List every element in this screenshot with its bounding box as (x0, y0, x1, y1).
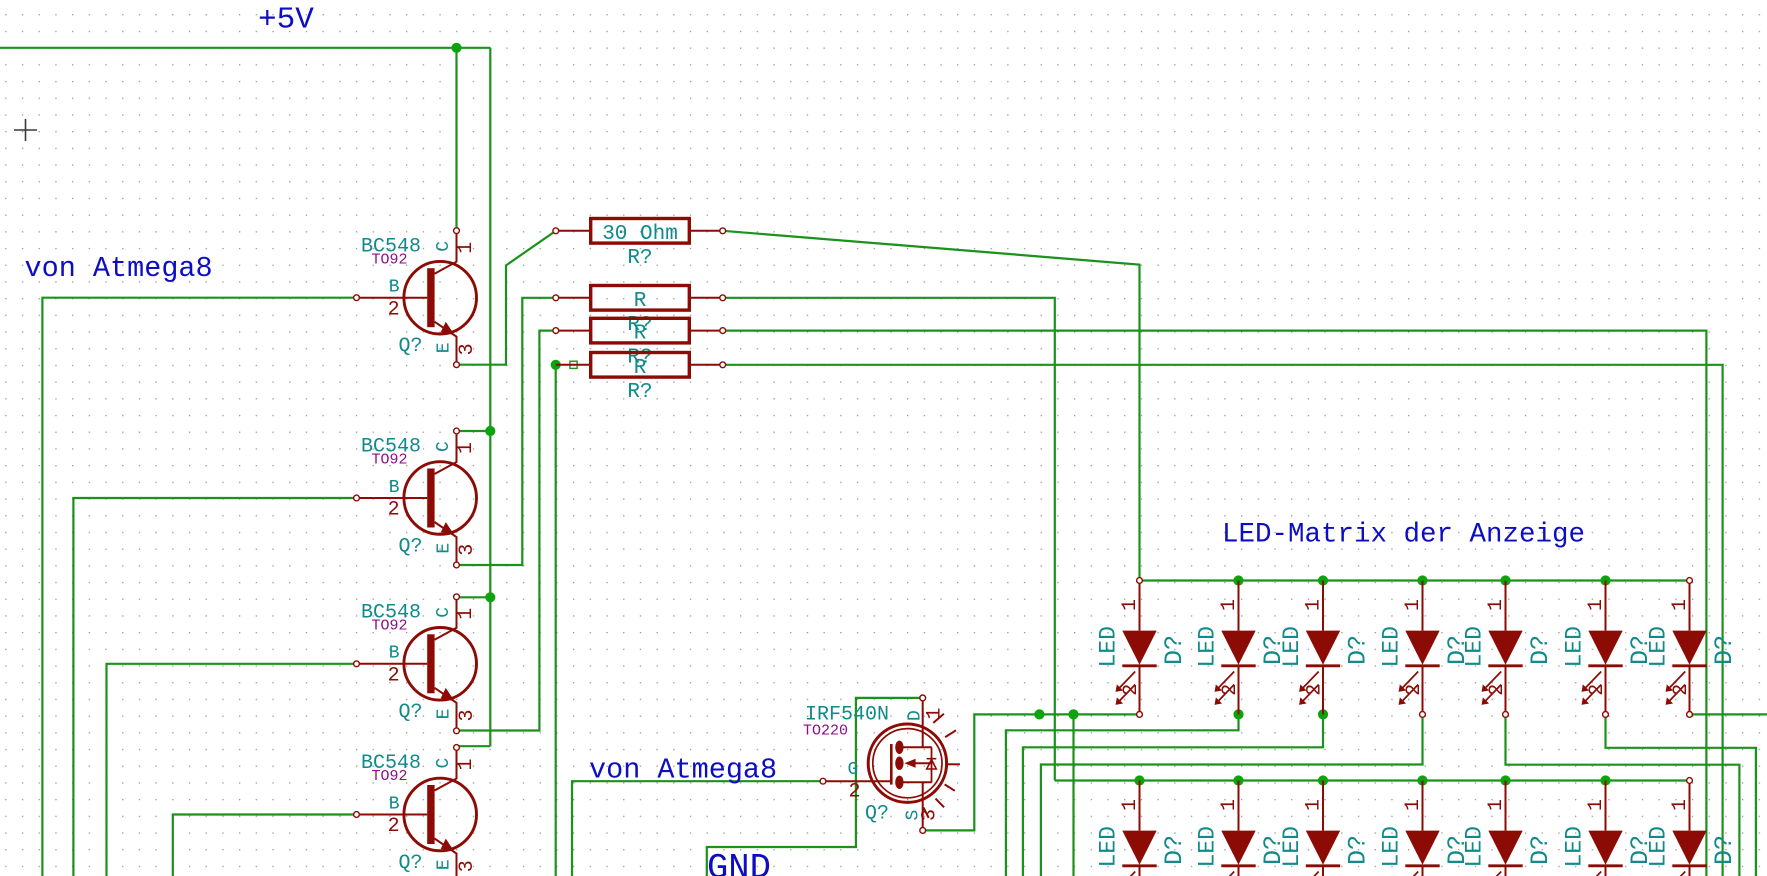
transistor Q? IRF540N MOSFET (803, 695, 960, 833)
junction (1417, 575, 1427, 585)
pin 3 emitter (435, 688, 457, 731)
junction (1318, 709, 1328, 719)
pin 2 base (357, 297, 427, 299)
svg-text:1: 1 (1402, 599, 1425, 611)
svg-text:2: 2 (1586, 684, 1609, 696)
wire R1 to LED row1 anode bus (723, 231, 1140, 581)
light arrows (1400, 672, 1419, 704)
svg-text:+5V: +5V (258, 3, 314, 38)
svg-text:3: 3 (456, 343, 479, 355)
pin 2 base (357, 814, 427, 816)
pin 3 source (903, 781, 932, 783)
junction (451, 43, 461, 53)
svg-text:D?: D? (1526, 835, 1555, 865)
wire R4 to right edge (723, 365, 1723, 876)
svg-text:3: 3 (456, 709, 479, 721)
svg-text:R: R (634, 290, 647, 313)
svg-text:LED: LED (1195, 826, 1221, 867)
svg-text:Q?: Q? (865, 803, 889, 826)
light arrows (1300, 872, 1319, 876)
svg-text:TO220: TO220 (803, 723, 848, 740)
LED D? #1.3 (1279, 581, 1373, 715)
wire LED D4 cathode down (1041, 714, 1423, 876)
gate bar (890, 744, 893, 785)
resistor R? #2 value R (553, 286, 726, 337)
svg-text:D?: D? (1710, 835, 1739, 865)
svg-text:1: 1 (1669, 599, 1692, 611)
svg-text:C: C (434, 758, 454, 769)
wire Q1 collector to +5V (455, 48, 457, 231)
svg-text:LED: LED (1096, 626, 1122, 667)
wire Q2 emitter to R2 (457, 298, 556, 565)
svg-text:1: 1 (1585, 599, 1608, 611)
LED D? #2.2 (1195, 781, 1289, 876)
wire Q4 collector stub (457, 745, 491, 747)
svg-text:1: 1 (1119, 799, 1142, 811)
svg-text:2: 2 (388, 499, 400, 522)
LED D? #2.1 (1096, 781, 1190, 876)
svg-text:1: 1 (1218, 599, 1241, 611)
svg-text:1: 1 (455, 242, 478, 254)
wire LED D7 cathode to edge (1690, 713, 1767, 715)
junction (485, 426, 495, 436)
LED pin end circles (1137, 578, 1143, 584)
transistor Q? BC548 #3 (354, 594, 479, 734)
svg-text:C: C (434, 241, 454, 252)
wire LED D2 cathode down (1006, 714, 1239, 876)
transistor Q? BC548 #1 (354, 228, 479, 368)
LED D? #2.5 (1462, 781, 1556, 876)
heatsink ticks (933, 714, 944, 723)
junction (1500, 575, 1510, 585)
LED D? #1.5 (1462, 581, 1556, 715)
wire Q4 emitter riser to R4 (555, 365, 557, 876)
svg-text:D: D (906, 710, 926, 721)
svg-text:R?: R? (627, 381, 652, 404)
light arrows (1583, 672, 1602, 704)
light arrows (1483, 872, 1502, 876)
wire Q1 emitter to R1 (457, 231, 556, 365)
svg-text:1: 1 (1585, 799, 1608, 811)
junction (1500, 775, 1510, 785)
resistor R? #3 value R (553, 318, 726, 369)
svg-text:3: 3 (919, 809, 942, 821)
svg-text:30 Ohm: 30 Ohm (602, 223, 678, 246)
svg-text:LED: LED (1562, 626, 1588, 667)
svg-text:1: 1 (1669, 799, 1692, 811)
svg-text:2: 2 (388, 664, 400, 687)
svg-text:E: E (434, 709, 454, 720)
emitter arrow (441, 322, 455, 335)
emitter arrow (441, 688, 455, 701)
wire LED D3 cathode down (1023, 714, 1323, 876)
svg-text:1: 1 (1402, 799, 1425, 811)
wire LED row1 anode bus (1140, 579, 1690, 581)
wire LED D5 cathode down (1506, 714, 1740, 876)
svg-text:LED: LED (1379, 626, 1405, 667)
svg-text:2: 2 (1120, 684, 1143, 696)
svg-text:R?: R? (627, 247, 652, 270)
resistor R? #4 value R (556, 353, 726, 404)
LED D? #1.6 (1562, 581, 1656, 715)
substrate arrow (908, 762, 932, 764)
svg-text:LED-Matrix der Anzeige: LED-Matrix der Anzeige (1222, 520, 1585, 551)
svg-text:TO92: TO92 (372, 768, 408, 785)
pin 3 emitter (435, 839, 457, 876)
LED D? #1.7 (1646, 581, 1740, 715)
wire +5V rail vertical (489, 48, 491, 746)
svg-text:1: 1 (455, 608, 478, 620)
wire MOSFET drain to GND (707, 698, 923, 876)
emitter arrow (441, 522, 455, 535)
channel bars (895, 741, 903, 754)
svg-text:2: 2 (1403, 684, 1426, 696)
svg-text:1: 1 (924, 707, 947, 719)
svg-text:B: B (389, 644, 400, 664)
svg-text:1: 1 (1303, 599, 1326, 611)
junction (551, 360, 561, 370)
svg-text:2: 2 (1486, 684, 1509, 696)
junction (1600, 775, 1610, 785)
wire LED D6 cathode down (1606, 714, 1756, 876)
transistor Q? BC548 #2 (354, 428, 479, 568)
svg-text:LED: LED (1279, 826, 1305, 867)
light arrows (1300, 672, 1319, 704)
svg-text:Q?: Q? (399, 701, 423, 724)
LED D? #1.1 (1096, 581, 1190, 715)
junction (1233, 709, 1243, 719)
junction (1233, 575, 1243, 585)
svg-text:E: E (434, 342, 454, 353)
svg-text:E: E (434, 859, 454, 870)
LED D? #1.2 (1195, 581, 1289, 715)
wire Q3 emitter to R3 (457, 331, 556, 731)
svg-text:1: 1 (1485, 599, 1508, 611)
svg-text:B: B (389, 794, 400, 814)
svg-text:R: R (634, 357, 647, 380)
svg-text:1: 1 (1119, 599, 1142, 611)
pin 1 collector (435, 231, 457, 274)
junction (1068, 709, 1078, 719)
svg-text:1: 1 (455, 442, 478, 454)
wire R2 to LED row2 anode bus (723, 298, 1055, 781)
light arrows (1483, 672, 1502, 704)
LED D? #2.3 (1279, 781, 1373, 876)
svg-text:D?: D? (1710, 635, 1739, 665)
svg-text:Q?: Q? (399, 852, 423, 875)
light arrows (1400, 872, 1419, 876)
wire Q4 base from Atmega8 (173, 815, 357, 876)
svg-text:G: G (848, 760, 859, 780)
wire dangling end square (570, 361, 577, 368)
svg-text:GND: GND (707, 848, 771, 876)
junction (1417, 775, 1427, 785)
LED D? #2.4 (1379, 781, 1473, 876)
wire cathode branch down (1072, 714, 1074, 876)
svg-text:D?: D? (1160, 835, 1189, 865)
svg-text:Q?: Q? (399, 535, 423, 558)
light arrows (1117, 672, 1136, 704)
junction (1134, 775, 1144, 785)
junction (1034, 709, 1044, 719)
light arrows (1583, 872, 1602, 876)
svg-text:3: 3 (456, 544, 479, 556)
junction (1600, 575, 1610, 585)
resistor R? #1 value 30 Ohm (553, 219, 726, 270)
svg-text:von Atmega8: von Atmega8 (25, 252, 213, 285)
light arrows (1667, 672, 1686, 704)
svg-text:1: 1 (1485, 799, 1508, 811)
svg-text:1: 1 (1303, 799, 1326, 811)
svg-text:TO92: TO92 (372, 618, 408, 635)
svg-text:1: 1 (455, 758, 478, 770)
svg-text:LED: LED (1646, 826, 1672, 867)
pin 1 collector (435, 748, 457, 791)
svg-text:von Atmega8: von Atmega8 (589, 754, 777, 787)
svg-text:C: C (434, 441, 454, 452)
svg-text:B: B (389, 278, 400, 298)
pin 1 drain (922, 698, 924, 747)
svg-text:D?: D? (1344, 835, 1373, 865)
wire MOSFET gate from Atmega8 (572, 781, 823, 876)
wire Q3 collector stub (457, 596, 491, 598)
wire LED row2 anode bus (1055, 779, 1690, 781)
transistor Q? BC548 #4 (354, 745, 479, 876)
svg-text:C: C (434, 607, 454, 618)
svg-text:R: R (634, 323, 647, 346)
svg-text:LED: LED (1096, 826, 1122, 867)
svg-text:2: 2 (1219, 684, 1242, 696)
cursor crosshair (14, 119, 37, 141)
svg-text:2: 2 (388, 815, 400, 838)
svg-text:TO92: TO92 (372, 452, 408, 469)
svg-text:LED: LED (1195, 626, 1221, 667)
svg-text:LED: LED (1379, 826, 1405, 867)
svg-text:TO92: TO92 (372, 251, 408, 268)
pin 3 emitter (435, 322, 457, 365)
pin 1 collector (435, 597, 457, 640)
svg-text:B: B (389, 478, 400, 498)
pin 1 collector (435, 431, 457, 474)
LED D? #2.7 (1646, 781, 1740, 876)
wire MOSFET source to LED cathodes (923, 714, 1140, 830)
svg-text:2: 2 (849, 781, 861, 804)
svg-text:D?: D? (1344, 635, 1373, 665)
emitter arrow (441, 839, 455, 852)
svg-text:D?: D? (1160, 635, 1189, 665)
svg-text:LED: LED (1646, 626, 1672, 667)
wire R3 to right edge (723, 331, 1707, 876)
svg-text:3: 3 (456, 860, 479, 872)
light arrows (1117, 872, 1136, 876)
pin 2 gate (823, 780, 891, 782)
svg-text:2: 2 (388, 298, 400, 321)
svg-text:D?: D? (1526, 635, 1555, 665)
light arrows (1216, 872, 1235, 876)
svg-text:1: 1 (1218, 799, 1241, 811)
wire Q3 base from Atmega8 (107, 664, 357, 876)
light arrows (1667, 872, 1686, 876)
body diode (931, 747, 933, 782)
svg-text:LED: LED (1462, 826, 1488, 867)
light arrows (1216, 672, 1235, 704)
pin 2 base (357, 663, 427, 665)
wire Q2 base from Atmega8 (73, 498, 356, 876)
wire +5V rail top (0, 47, 490, 49)
svg-text:LED: LED (1462, 626, 1488, 667)
LED D? #2.6 (1562, 781, 1656, 876)
svg-text:2: 2 (1304, 684, 1327, 696)
wire Q2 collector stub (457, 430, 491, 432)
svg-text:2: 2 (1670, 684, 1693, 696)
svg-text:E: E (434, 543, 454, 554)
pin 2 base (357, 497, 427, 499)
LED D? #1.4 (1379, 581, 1473, 715)
junction (1233, 775, 1243, 785)
junction (485, 592, 495, 602)
junction (1318, 775, 1328, 785)
pin 3 emitter (435, 522, 457, 565)
svg-text:LED: LED (1279, 626, 1305, 667)
wire Q1 base from Atmega8 (42, 298, 356, 876)
svg-text:LED: LED (1562, 826, 1588, 867)
svg-text:Q?: Q? (399, 335, 423, 358)
junction (1318, 575, 1328, 585)
